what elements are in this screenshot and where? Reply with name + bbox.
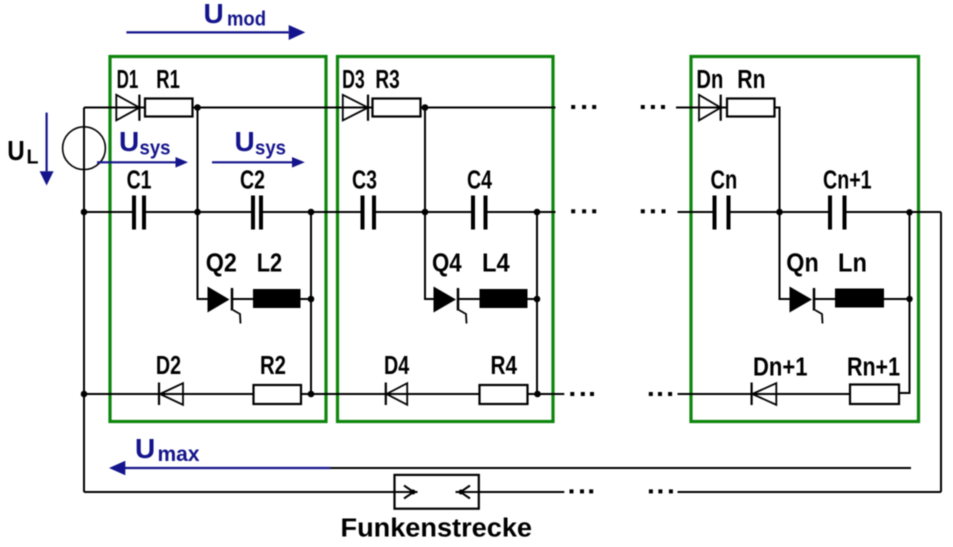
- label Cn: [711, 167, 738, 195]
- svg-text:Funkenstrecke: Funkenstrecke: [341, 515, 533, 543]
- node B1 bottom junction: [308, 391, 315, 398]
- spark gap right electrode tip: [459, 490, 464, 495]
- wire top bus left: [84, 107, 145, 109]
- svg-text:max: max: [158, 443, 200, 466]
- node B2 inductor junction: [534, 296, 541, 303]
- arrow Umod: [126, 25, 305, 40]
- svg-text:D1: D1: [117, 66, 139, 94]
- wire capacitor bus segment 6: [678, 211, 713, 213]
- resistor R4: [480, 385, 528, 404]
- dots bottom bus group 1: [570, 392, 594, 396]
- node A1 top junction: [194, 104, 201, 111]
- node A1 capacitor junction: [194, 209, 201, 216]
- svg-text:D2: D2: [156, 352, 181, 380]
- label R2: [260, 352, 286, 380]
- svg-text:L2: L2: [257, 250, 283, 278]
- label Usys 2: [235, 126, 287, 160]
- svg-text:U: U: [119, 126, 139, 157]
- wire top bus R1 to R3: [193, 107, 373, 109]
- dots capacitor bus group 2: [641, 209, 666, 213]
- label L4: [482, 250, 510, 278]
- voltage source UL circle: [63, 127, 106, 170]
- thyristor Qn: [790, 287, 823, 324]
- svg-text:Dn+1: Dn+1: [753, 354, 808, 382]
- wire capacitor bus segment 7: [731, 211, 829, 213]
- svg-text:U: U: [135, 433, 155, 464]
- dots top bus group 1: [571, 105, 596, 109]
- stage box 2 (green): [338, 57, 554, 422]
- label D2: [156, 352, 181, 380]
- node B1 capacitor junction: [308, 209, 315, 216]
- label D1: [117, 66, 139, 94]
- node A2 capacitor junction: [422, 209, 429, 216]
- wire L4 to node B2: [528, 298, 538, 300]
- svg-text:L4: L4: [482, 250, 510, 278]
- label C4: [467, 167, 493, 195]
- wire column A1 with elbow to Q2: [198, 108, 208, 300]
- svg-text:Ln: Ln: [838, 250, 867, 278]
- dots top bus group 2: [641, 105, 665, 109]
- node B1 inductor junction: [308, 296, 315, 303]
- label Umod: [204, 0, 267, 31]
- svg-text:C2: C2: [240, 167, 265, 195]
- wire capacitor bus segment 8 to right rail: [847, 211, 942, 213]
- label R3: [375, 66, 399, 94]
- wire Rn output elbow down to node: [775, 108, 780, 213]
- svg-text:R4: R4: [491, 352, 518, 380]
- node B3 capacitor junction: [906, 209, 912, 215]
- dots capacitor bus group 1: [571, 209, 596, 213]
- label Qn: [786, 250, 818, 278]
- wire capacitor bus segment 4: [376, 211, 471, 213]
- spark gap right electrode: [456, 486, 479, 499]
- label Rn: [737, 66, 765, 94]
- thyristor Q4: [434, 287, 467, 324]
- resistor R3: [373, 99, 421, 117]
- label Usys 1: [119, 126, 171, 160]
- label R4: [491, 352, 518, 380]
- wire column B1: [310, 212, 312, 394]
- label C1: [127, 167, 152, 195]
- label Q2: [206, 250, 237, 278]
- arrow UL (blue down): [40, 113, 54, 186]
- wire top bus into box3: [676, 107, 727, 109]
- svg-text:Q2: Q2: [206, 250, 237, 278]
- wire left rail: [83, 108, 85, 493]
- wire top bus R3 to dots: [421, 107, 556, 109]
- resistor R2: [254, 385, 302, 404]
- diode D4: [386, 383, 407, 406]
- label C2: [240, 167, 265, 195]
- svg-text:L: L: [27, 147, 39, 169]
- svg-text:Q4: Q4: [432, 250, 462, 278]
- svg-text:Cn+1: Cn+1: [823, 167, 872, 195]
- label Dn: [696, 66, 723, 94]
- svg-text:Dn: Dn: [696, 66, 723, 94]
- stage box 3 (green): [691, 57, 919, 422]
- inductor L2: [253, 289, 301, 308]
- svg-text:C4: C4: [467, 167, 493, 195]
- arrow Usys 2: [212, 157, 305, 168]
- node A2 top junction: [422, 104, 429, 111]
- wire right rail: [940, 212, 942, 492]
- label L2: [257, 250, 283, 278]
- wire column A3 with elbow to Qn: [780, 212, 790, 299]
- node left rail capacitor junction: [81, 209, 88, 216]
- dots bottom bus group 2: [649, 392, 672, 396]
- wire column B2: [536, 212, 538, 394]
- capacitor C2: [251, 196, 263, 230]
- label D3: [342, 66, 365, 94]
- svg-text:C3: C3: [352, 167, 377, 195]
- diode Dn: [699, 95, 721, 121]
- wire L2 to node B1: [301, 298, 312, 300]
- spark gap left electrode tip: [411, 490, 416, 495]
- capacitor Cn: [713, 196, 731, 230]
- wire capacitor bus segment 5: [488, 211, 556, 213]
- svg-text:sys: sys: [255, 138, 286, 160]
- label Rn+1: [847, 354, 900, 382]
- node B2 capacitor junction: [534, 209, 541, 216]
- wire bottom bus segment 3: [528, 393, 565, 395]
- inductor L4: [480, 289, 528, 308]
- label Funkenstrecke: [341, 515, 533, 543]
- svg-text:D4: D4: [384, 352, 410, 380]
- resistor Rn: [727, 99, 775, 117]
- node A3 capacitor junction: [776, 209, 783, 216]
- diode D1: [116, 95, 139, 121]
- wire bottom bus segment 1: [84, 393, 254, 395]
- resistor Rn+1: [850, 385, 899, 405]
- wire column B3 with elbow to Rn+1: [900, 212, 910, 393]
- svg-text:R3: R3: [375, 66, 399, 94]
- wire bottom bus segment 4 into box3: [678, 393, 851, 395]
- svg-text:Cn: Cn: [711, 167, 738, 195]
- svg-text:C1: C1: [127, 167, 152, 195]
- node B3 inductor junction: [906, 296, 912, 302]
- node left rail bottom junction: [81, 391, 88, 398]
- svg-text:Rn: Rn: [737, 66, 765, 94]
- inductor Ln: [835, 289, 884, 308]
- diode Dn+1: [752, 383, 777, 406]
- capacitor C4: [471, 196, 488, 230]
- wire ground bus left: [84, 491, 395, 493]
- dots ground bus group 2: [649, 489, 673, 493]
- svg-text:U: U: [7, 135, 25, 166]
- wire Qn cathode to Ln: [815, 298, 835, 300]
- label Dn+1: [753, 354, 808, 382]
- wire ground bus right: [678, 491, 942, 493]
- label D4: [384, 352, 410, 380]
- label Q4: [432, 250, 462, 278]
- svg-text:sys: sys: [140, 138, 171, 160]
- wire bottom bus segment 2: [301, 393, 480, 395]
- capacitor Cn+1: [828, 196, 847, 230]
- wire Ln to node B3: [884, 298, 910, 300]
- arrow Umax (blue part, points left): [109, 461, 331, 475]
- label Cn+1: [823, 167, 872, 195]
- svg-text:U: U: [204, 0, 224, 29]
- svg-text:Rn+1: Rn+1: [847, 354, 900, 382]
- wire capacitor bus segment 2: [146, 211, 251, 213]
- thyristor Q2: [208, 287, 241, 324]
- wire Q2 cathode to L2: [233, 298, 253, 300]
- wire Umax return line (black part): [331, 467, 912, 469]
- arrow Usys 1: [97, 157, 188, 168]
- wire column A2 with elbow to Q4: [425, 108, 434, 300]
- node B2 bottom junction: [534, 391, 541, 398]
- wire capacitor bus segment 3: [263, 211, 361, 213]
- resistor R1: [145, 99, 193, 117]
- stage box 1 (green): [110, 57, 326, 422]
- svg-text:U: U: [235, 126, 255, 157]
- label R1: [156, 66, 180, 94]
- diode D3: [343, 95, 368, 121]
- label Umax: [135, 433, 200, 466]
- wire ground bus after spark gap: [479, 491, 565, 493]
- svg-text:R1: R1: [156, 66, 180, 94]
- svg-text:D3: D3: [342, 66, 365, 94]
- spark gap box (Funkenstrecke): [395, 475, 479, 509]
- diode D2: [159, 383, 183, 406]
- capacitor C3: [361, 196, 377, 230]
- label UL: [7, 135, 38, 169]
- svg-text:R2: R2: [260, 352, 286, 380]
- label Ln: [838, 250, 867, 278]
- wire capacitor bus segment 1: [84, 211, 132, 213]
- wire Q4 cathode to L4: [459, 298, 480, 300]
- svg-text:Qn: Qn: [786, 250, 818, 278]
- dots ground bus group 1: [570, 489, 594, 493]
- capacitor C1: [132, 196, 146, 230]
- spark gap left electrode: [395, 486, 418, 499]
- label C3: [352, 167, 377, 195]
- svg-text:mod: mod: [227, 9, 266, 31]
